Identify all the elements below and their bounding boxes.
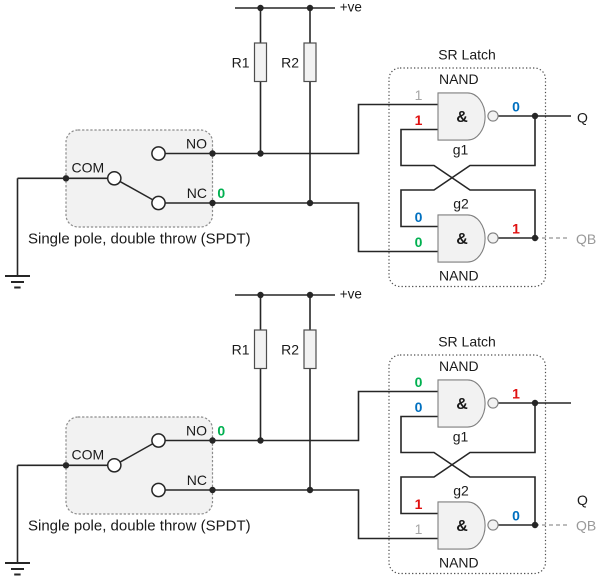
svg-text:NO: NO: [186, 136, 207, 152]
svg-text:NO: NO: [186, 423, 207, 439]
svg-text:0: 0: [415, 209, 423, 225]
svg-text:1: 1: [512, 221, 520, 237]
svg-text:0: 0: [415, 399, 423, 415]
svg-text:1: 1: [415, 87, 423, 103]
svg-text:g1: g1: [453, 142, 469, 158]
svg-text:0: 0: [512, 99, 520, 115]
svg-text:g1: g1: [453, 429, 469, 445]
svg-text:COM: COM: [72, 447, 105, 463]
svg-text:1: 1: [512, 386, 520, 402]
svg-text:NAND: NAND: [439, 71, 479, 87]
svg-text:R1: R1: [232, 341, 250, 357]
svg-text:NC: NC: [187, 185, 207, 201]
svg-text:R2: R2: [281, 341, 299, 357]
svg-text:&: &: [456, 231, 468, 248]
svg-text:0: 0: [415, 374, 423, 390]
svg-text:Single pole, double throw (SPD: Single pole, double throw (SPDT): [28, 517, 251, 534]
svg-text:1: 1: [415, 496, 423, 512]
svg-text:g2: g2: [453, 483, 469, 499]
svg-text:&: &: [456, 518, 468, 535]
svg-text:NAND: NAND: [439, 358, 479, 374]
svg-text:g2: g2: [453, 196, 469, 212]
svg-text:&: &: [456, 109, 468, 126]
svg-text:1: 1: [415, 112, 423, 128]
svg-text:COM: COM: [72, 160, 105, 176]
svg-text:Single pole, double throw (SPD: Single pole, double throw (SPDT): [28, 230, 251, 247]
svg-text:0: 0: [217, 185, 225, 201]
svg-text:SR Latch: SR Latch: [438, 47, 496, 63]
svg-text:R2: R2: [281, 54, 299, 70]
svg-text:NAND: NAND: [439, 268, 479, 284]
svg-text:1: 1: [415, 521, 423, 537]
svg-text:QB: QB: [576, 518, 596, 534]
svg-text:Q: Q: [577, 492, 588, 508]
svg-text:+ve: +ve: [340, 0, 362, 15]
svg-text:&: &: [456, 396, 468, 413]
svg-text:0: 0: [217, 423, 225, 439]
svg-text:+ve: +ve: [340, 287, 362, 302]
svg-text:R1: R1: [232, 54, 250, 70]
svg-text:QB: QB: [576, 231, 596, 247]
svg-text:NC: NC: [187, 472, 207, 488]
svg-text:0: 0: [415, 234, 423, 250]
svg-text:NAND: NAND: [439, 555, 479, 571]
svg-text:SR Latch: SR Latch: [438, 334, 496, 350]
svg-text:0: 0: [512, 508, 520, 524]
svg-text:Q: Q: [577, 109, 588, 125]
